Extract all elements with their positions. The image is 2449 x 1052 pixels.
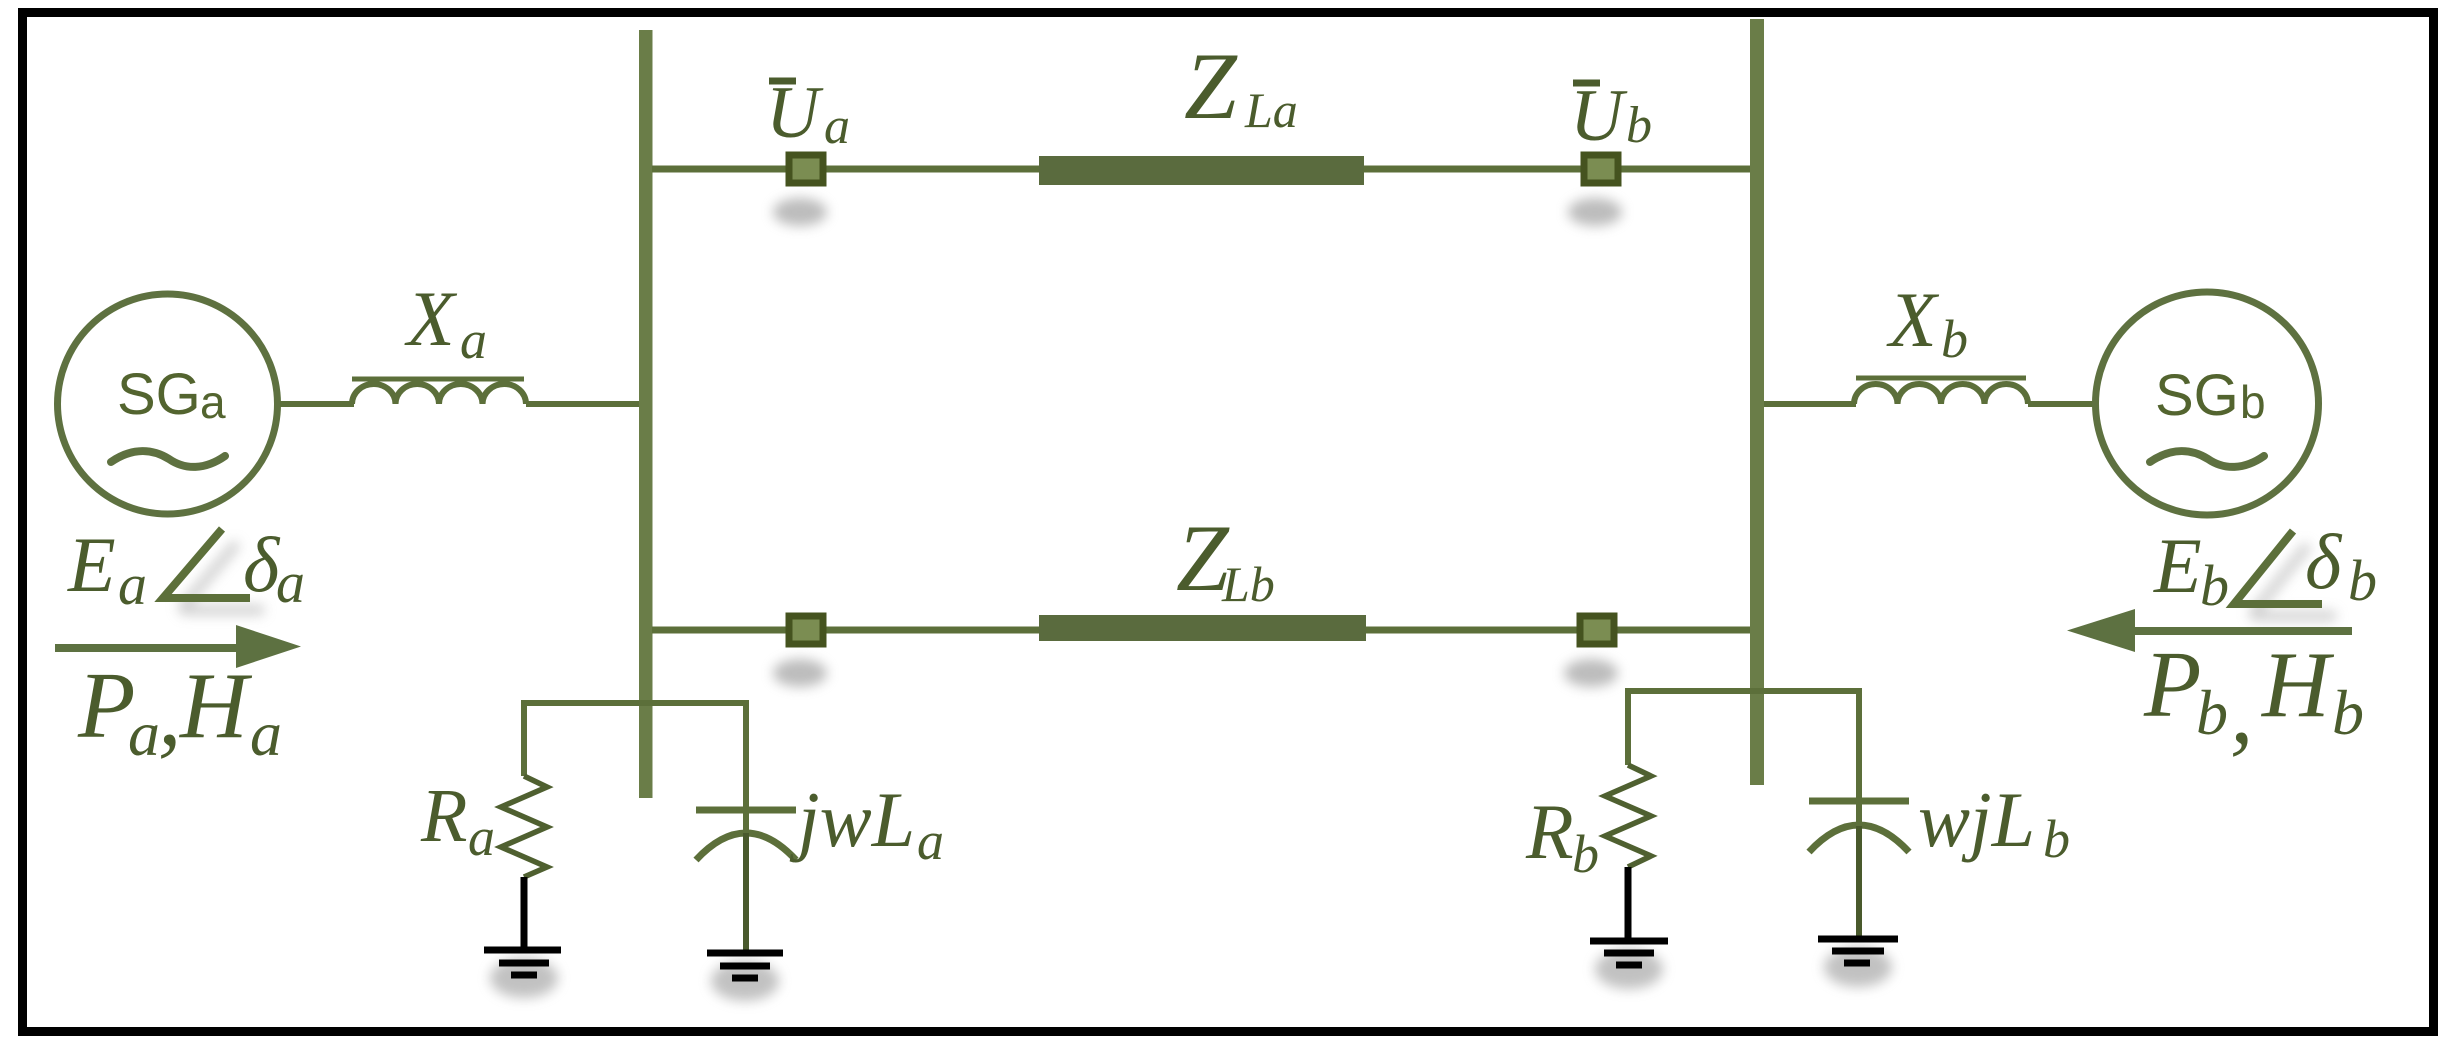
top transmission line wire bbox=[652, 166, 1752, 173]
svg-text:R: R bbox=[1525, 788, 1574, 875]
generator SGa circle bbox=[58, 294, 278, 514]
wire inductor Xb to gen b bbox=[2028, 401, 2094, 407]
capacitor wjLb curved plate bbox=[1809, 825, 1909, 852]
inductor Xa top bar bbox=[352, 377, 524, 382]
power flow arrow b shaft bbox=[2130, 627, 2352, 635]
ground symbol under wjLb bbox=[1818, 939, 1898, 963]
shadow of square Ua bbox=[773, 198, 827, 226]
power flow arrow a shaft bbox=[55, 644, 240, 652]
angle symbol shadow (right) bbox=[2251, 545, 2336, 616]
svg-text:a: a bbox=[824, 98, 850, 155]
node square A2 bbox=[789, 616, 823, 644]
svg-text:δ: δ bbox=[2305, 518, 2343, 605]
ground shadow under Rb ground bbox=[1595, 949, 1663, 989]
svg-text:X: X bbox=[404, 275, 458, 362]
wire Rb to ground (black) bbox=[1625, 867, 1632, 938]
wire Ra to ground (black) bbox=[521, 877, 528, 947]
wire inductor to bus A bbox=[526, 401, 646, 407]
capacitor jwLa curved plate bbox=[696, 833, 796, 860]
angle symbol (left) bbox=[163, 529, 250, 598]
power flow arrow b head bbox=[2067, 609, 2135, 652]
svg-text:a: a bbox=[128, 698, 160, 769]
svg-text:R: R bbox=[420, 774, 467, 858]
svg-text:,: , bbox=[2230, 659, 2254, 763]
svg-text:b: b bbox=[2196, 677, 2228, 748]
ground symbol under Rb bbox=[1590, 941, 1668, 965]
power flow arrow a head bbox=[236, 625, 301, 668]
generator SGb sine tilde bbox=[2150, 451, 2264, 467]
svg-text:jwL: jwL bbox=[789, 776, 915, 863]
shadow of square B2 bbox=[1564, 659, 1618, 687]
impedance ZLb bar bbox=[1039, 615, 1366, 641]
node square B2 bbox=[1580, 616, 1614, 644]
capacitor wjLb top plate bbox=[1809, 798, 1909, 805]
right shunt tap wire bbox=[1628, 691, 1859, 826]
svg-text:a: a bbox=[276, 550, 305, 615]
ground shadow under Ra ground bbox=[490, 958, 558, 998]
svg-text:La: La bbox=[1244, 82, 1298, 138]
angle symbol (right) bbox=[2234, 531, 2322, 604]
svg-text:E: E bbox=[2153, 522, 2202, 609]
generator SGa sine tilde bbox=[111, 451, 225, 467]
svg-text:b: b bbox=[2348, 548, 2377, 613]
bus B (right busbar) bbox=[1750, 19, 1764, 785]
generator SGb circle bbox=[2096, 292, 2319, 515]
capacitor jwLa top plate bbox=[696, 807, 796, 814]
svg-text:Z: Z bbox=[1184, 33, 1238, 139]
svg-text:b: b bbox=[2332, 677, 2364, 748]
svg-text:,: , bbox=[158, 661, 182, 765]
wire jwLa to ground bbox=[743, 833, 749, 950]
inductor Xb top bar bbox=[1856, 376, 2026, 381]
ground shadow under wjLb ground bbox=[1824, 947, 1892, 987]
node square Ua bbox=[789, 155, 823, 183]
svg-text:H: H bbox=[2260, 633, 2335, 737]
shadow of square A2 bbox=[773, 659, 827, 687]
svg-text:b: b bbox=[1572, 824, 1599, 884]
resistor Ra zigzag bbox=[501, 776, 547, 877]
wire gen-a to inductor bbox=[280, 401, 354, 407]
svg-text:b: b bbox=[2200, 553, 2229, 618]
svg-text:a: a bbox=[200, 376, 226, 428]
svg-text:a: a bbox=[460, 310, 487, 370]
resistor Rb zigzag bbox=[1605, 765, 1651, 867]
left shunt tap wire bbox=[524, 703, 746, 838]
ground symbol under jwLa bbox=[707, 953, 783, 978]
label Ua macron bbox=[769, 78, 796, 85]
svg-text:a: a bbox=[250, 698, 282, 769]
svg-text:b: b bbox=[2240, 376, 2266, 428]
svg-text:U: U bbox=[766, 72, 824, 154]
svg-text:SG: SG bbox=[117, 362, 201, 427]
wire bus B to inductor Xb bbox=[1764, 401, 1856, 407]
svg-text:X: X bbox=[1886, 276, 1940, 363]
svg-text:a: a bbox=[917, 811, 944, 871]
svg-text:P: P bbox=[2143, 633, 2201, 737]
label Ub macron bbox=[1573, 80, 1600, 87]
svg-text:U: U bbox=[1570, 75, 1628, 157]
svg-text:b: b bbox=[1626, 97, 1652, 154]
svg-text:a: a bbox=[468, 807, 495, 867]
svg-text:a: a bbox=[118, 552, 147, 617]
bus A (left busbar) bbox=[639, 30, 653, 798]
wire wjLb to ground bbox=[1856, 826, 1862, 936]
svg-text:H: H bbox=[178, 654, 253, 758]
svg-text:b: b bbox=[2043, 809, 2070, 869]
svg-text:P: P bbox=[77, 654, 135, 758]
shadow of square Ub bbox=[1568, 198, 1622, 226]
inductor Xa coils bbox=[352, 384, 526, 404]
svg-text:Lb: Lb bbox=[1221, 556, 1275, 612]
angle symbol shadow (left) bbox=[180, 543, 264, 610]
bottom transmission line wire bbox=[652, 627, 1752, 634]
ground symbol under Ra bbox=[484, 950, 561, 975]
svg-text:E: E bbox=[67, 521, 116, 608]
ground shadow under jwLa ground bbox=[711, 961, 779, 1001]
svg-text:wjL: wjL bbox=[1918, 776, 2035, 863]
svg-text:b: b bbox=[1941, 309, 1968, 369]
inductor Xb coils bbox=[1854, 384, 2028, 404]
impedance ZLa bar bbox=[1039, 156, 1364, 185]
node square Ub bbox=[1584, 155, 1618, 183]
svg-text:SG: SG bbox=[2155, 363, 2239, 428]
